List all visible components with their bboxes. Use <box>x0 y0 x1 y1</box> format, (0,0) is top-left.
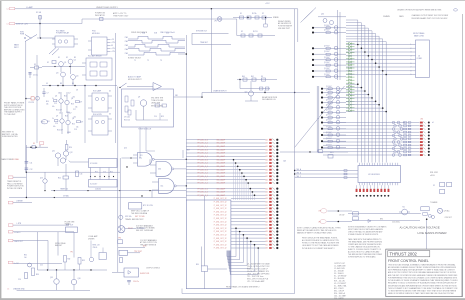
resistor R20 vertical <box>65 145 68 151</box>
svg-text:Q R 4k7: Q R 4k7 <box>324 57 330 59</box>
svg-text:FP_LED_O_1: FP_LED_O_1 <box>198 173 209 175</box>
svg-text:47n: 47n <box>52 106 55 108</box>
svg-text:C11: C11 <box>30 163 33 165</box>
svg-text:LP4: LP4 <box>318 221 321 223</box>
LED row u 153 <box>186 152 265 154</box>
svg-text:TIMER 555: TIMER 555 <box>60 189 68 191</box>
svg-text:DRIVE SEQUENCE: DRIVE SEQUENCE <box>131 32 148 34</box>
bank verticals <box>337 10 339 80</box>
svg-text:R36: R36 <box>36 274 39 276</box>
svg-text:FP_LED_O_1: FP_LED_O_1 <box>198 149 209 151</box>
svg-text:Q R 4k7: Q R 4k7 <box>326 105 332 107</box>
LED row l 202 <box>231 201 266 203</box>
svg-text:FP_LED_O_1: FP_LED_O_1 <box>198 156 209 158</box>
ac source circle <box>438 208 443 213</box>
LED row l 235 <box>231 234 266 236</box>
svg-text:C8: C8 <box>76 90 78 92</box>
LED row l 248 <box>231 247 266 249</box>
upper fan risers to box top <box>233 160 235 200</box>
svg-text:22k: 22k <box>59 113 62 115</box>
svg-text:BT1 3V LITH: BT1 3V LITH <box>143 205 154 207</box>
svg-text:4u7: 4u7 <box>68 93 71 95</box>
connector J3 box <box>416 40 430 78</box>
svg-text:Q4: Q4 <box>76 76 78 78</box>
svg-text:LD1: LD1 <box>265 169 268 171</box>
svg-text:IND_LAMP: IND_LAMP <box>217 182 226 185</box>
svg-text:L.SENSE: L.SENSE <box>16 200 23 202</box>
IC U2 uln2803 <box>358 166 401 183</box>
svg-text:LD1: LD1 <box>265 149 268 151</box>
svg-text:AND THE SET OF NOTATION USED H: AND THE SET OF NOTATION USED HERE AND TH… <box>388 274 458 277</box>
gate IC4a <box>138 153 153 167</box>
right led rows <box>323 122 420 124</box>
svg-text:THE REFLOW AREA: THE REFLOW AREA <box>131 212 148 215</box>
svg-text:R11: R11 <box>47 121 50 123</box>
svg-text:THE LAST VERSION: THE LAST VERSION <box>140 244 157 247</box>
svg-text:C20 2200u: C20 2200u <box>392 221 400 223</box>
svg-text:R24: R24 <box>58 178 61 180</box>
svg-text:LD1: LD1 <box>265 205 268 207</box>
fuse pair right <box>440 183 445 187</box>
svg-text:L.PIEZO: L.PIEZO <box>14 232 21 234</box>
svg-text:THIS POINT ONLY: THIS POINT ONLY <box>113 15 129 17</box>
diag wires to right bank <box>304 8 317 20</box>
svg-text:AND IF NOT IN CONTEXT WITH FOR: AND IF NOT IN CONTEXT WITH FOR ORIGINAL … <box>388 271 457 274</box>
svg-text:P_LED_OUT_12: P_LED_OUT_12 <box>214 241 227 243</box>
lamp LP1 on rail <box>100 17 103 20</box>
ac drop to title area <box>426 219 428 249</box>
svg-text:P_LED_OUT_12: P_LED_OUT_12 <box>214 228 227 230</box>
svg-text:CIRCUIT: CIRCUIT <box>445 217 453 219</box>
svg-text:Q R 4k7: Q R 4k7 <box>326 110 332 112</box>
svg-text:C4: C4 <box>6 9 8 11</box>
svg-text:A) CAUTION HIGH VOLTAGE: A) CAUTION HIGH VOLTAGE <box>400 226 440 230</box>
transistor Q3 <box>61 72 66 77</box>
timing aux wires <box>192 32 229 34</box>
connector stub aux <box>8 239 13 241</box>
crossbar lower rows <box>346 83 358 85</box>
svg-text:LD1: LD1 <box>265 143 268 145</box>
svg-text:R30: R30 <box>196 264 199 266</box>
LED row l 215 <box>231 214 266 216</box>
svg-text:FP_LED_O_1: FP_LED_O_1 <box>198 183 209 185</box>
svg-text:FRONT CONTROL PANEL: FRONT CONTROL PANEL <box>388 259 429 263</box>
speaker SP1 <box>118 226 125 233</box>
svg-text:10k: 10k <box>75 107 78 109</box>
diode box bottom <box>124 268 139 277</box>
gate cluster G1 <box>55 153 60 158</box>
svg-text:FP_LED_O_1: FP_LED_O_1 <box>198 166 209 168</box>
svg-text:LD1: LD1 <box>265 208 268 210</box>
svg-text:P_LED_OUT_12: P_LED_OUT_12 <box>214 244 227 246</box>
svg-text:FP_LED_O_1: FP_LED_O_1 <box>198 159 209 161</box>
net bubble label <box>41 120 48 124</box>
svg-text:FP_LED_O_1: FP_LED_O_1 <box>198 153 209 155</box>
svg-text:P_LED_OUT_12: P_LED_OUT_12 <box>214 238 227 240</box>
svg-text:LD1: LD1 <box>265 231 268 233</box>
rail from matrix <box>178 53 186 55</box>
svg-text:P_LED_OUT_12: P_LED_OUT_12 <box>214 231 227 233</box>
svg-text:Q R 4k7: Q R 4k7 <box>324 25 330 27</box>
svg-text:P_LED_OUT_12: P_LED_OUT_12 <box>214 215 227 217</box>
gate aux parts <box>76 171 79 177</box>
svg-text:RL3 LAMP: RL3 LAMP <box>93 90 102 93</box>
svg-text:LD1: LD1 <box>265 173 268 175</box>
svg-text:CHARGE INPUT: CHARGE INPUT <box>213 89 227 92</box>
svg-text:TO EXIST AFTER NOTATION OVER T: TO EXIST AFTER NOTATION OVER THE EXACT T… <box>388 290 457 293</box>
LED row l 228 <box>231 227 266 229</box>
diode D3 cluster <box>35 66 39 69</box>
svg-text:C25: C25 <box>40 265 43 267</box>
gate IC4b <box>156 162 172 177</box>
svg-text:IND_LAMP: IND_LAMP <box>217 191 226 194</box>
svg-text:IC1 4093: IC1 4093 <box>90 163 97 165</box>
svg-text:U6c: U6c <box>161 186 164 188</box>
svg-text:P_LED_OUT_12: P_LED_OUT_12 <box>214 221 227 223</box>
svg-text:D6: D6 <box>109 114 111 116</box>
LED row l 205 <box>231 204 266 206</box>
svg-text:2k2: 2k2 <box>73 97 76 99</box>
connector J3 rows <box>346 44 416 46</box>
svg-text:Q13: Q13 <box>40 178 43 180</box>
fuse F1 <box>39 15 41 24</box>
bottom rail 270 <box>38 269 108 271</box>
svg-text:D4: D4 <box>39 145 41 147</box>
svg-text:Q7: Q7 <box>56 116 58 118</box>
LED row m 189 <box>186 188 265 190</box>
row 158 wire <box>122 157 138 159</box>
svg-text:BR1: BR1 <box>380 218 383 220</box>
transistor Q1 <box>59 62 64 67</box>
connector stub 5v <box>8 261 13 263</box>
svg-text:TP5: TP5 <box>70 251 73 253</box>
mid vertical rails to bottom <box>117 87 119 273</box>
svg-text:R33: R33 <box>82 260 85 262</box>
LED row u 143 <box>186 142 265 144</box>
svg-text:P_LED_OUT_12: P_LED_OUT_12 <box>214 205 227 207</box>
svg-text:R13: R13 <box>71 104 74 106</box>
svg-text:D7: D7 <box>262 13 264 15</box>
LED row l 218 <box>231 217 266 219</box>
svg-text:C7: C7 <box>47 93 49 95</box>
relay K3 cluster <box>25 98 27 100</box>
svg-text:C18: C18 <box>74 129 77 131</box>
LED row u 166 <box>186 165 265 167</box>
contact crosses under RL1 <box>49 48 56 55</box>
svg-text:DRIVER: DRIVER <box>88 238 95 240</box>
svg-text:D1: D1 <box>58 57 60 59</box>
wire R30 to bundle <box>208 268 227 270</box>
svg-text:R22 1k0: R22 1k0 <box>124 120 130 122</box>
green diode column <box>349 43 352 45</box>
driver rows group A/B <box>312 27 314 29</box>
svg-text:D2: D2 <box>66 57 68 59</box>
svg-text:LD1: LD1 <box>265 215 268 217</box>
relay RL2 box <box>86 58 112 80</box>
svg-text:IND_LAMP: IND_LAMP <box>217 148 226 151</box>
svg-text:R8: R8 <box>60 83 62 85</box>
svg-text:IND_LAMP: IND_LAMP <box>217 194 226 197</box>
LED row u 173 <box>186 172 265 174</box>
svg-text:LD1: LD1 <box>265 146 268 148</box>
oscillator Q7 Q8 <box>60 119 64 123</box>
svg-text:U6a: U6a <box>139 158 142 160</box>
svg-text:D5: D5 <box>109 91 111 93</box>
svg-text:LD1: LD1 <box>265 235 268 237</box>
svg-text:R25: R25 <box>95 172 98 174</box>
svg-text:0V RAIL: 0V RAIL <box>13 158 20 161</box>
svg-text:IND_LAMP: IND_LAMP <box>217 142 226 145</box>
LED row u 176 <box>186 175 265 177</box>
svg-text:IS FIRST APPLIED TO THE BOARD.: IS FIRST APPLIED TO THE BOARD. <box>348 255 376 258</box>
junction row under L1 <box>90 176 91 177</box>
svg-text:S2B: S2B <box>154 33 157 35</box>
svg-text:R23: R23 <box>161 116 164 118</box>
svg-text:Q15: Q15 <box>50 277 53 279</box>
svg-text:47n: 47n <box>53 126 56 128</box>
svg-text:VR1: VR1 <box>175 95 178 97</box>
vertical 201 upper <box>200 247 202 266</box>
svg-text:Q11: Q11 <box>52 151 55 153</box>
svg-text:x8 SIL: x8 SIL <box>430 175 435 177</box>
svg-text:NET: NET <box>42 122 45 124</box>
relay cluster right <box>421 207 429 211</box>
diode pair bottom <box>368 219 371 222</box>
connector stub piezo <box>8 231 13 233</box>
svg-text:C6: C6 <box>7 289 9 291</box>
svg-text:FP_LED_O_1: FP_LED_O_1 <box>198 169 209 171</box>
connector stub K9 <box>8 224 13 227</box>
capacitor C7 <box>43 88 45 92</box>
svg-text:Q R 4k7: Q R 4k7 <box>326 90 332 92</box>
svg-text:CHG_C: CHG_C <box>296 176 302 178</box>
sheet right border <box>462 14 464 297</box>
svg-text:LD1: LD1 <box>265 244 268 246</box>
bottom verticals <box>37 232 39 270</box>
svg-text:R20: R20 <box>69 147 72 149</box>
bottom left caps <box>25 273 28 279</box>
svg-text:R41: R41 <box>251 76 254 78</box>
svg-text:UNSWITCHED SUPPLY: UNSWITCHED SUPPLY <box>96 7 119 9</box>
svg-text:IND_LAMP: IND_LAMP <box>217 152 226 155</box>
svg-text:FOR REFERENCE THIS SECTION C: FOR REFERENCE THIS SECTION CONTAINS LOOK… <box>388 276 458 279</box>
svg-text:T1: T1 <box>134 60 136 62</box>
connector stub K5 <box>39 142 43 145</box>
wire +12V lamp top rail <box>15 8 298 10</box>
svg-text:P_LED_OUT_12: P_LED_OUT_12 <box>214 248 227 250</box>
tone box extra innards <box>155 104 160 107</box>
svg-text:LD1: LD1 <box>265 159 268 161</box>
svg-text:LD1: LD1 <box>265 198 268 200</box>
scan top edge shade <box>0 0 465 1</box>
svg-text:LD1: LD1 <box>265 241 268 243</box>
svg-text:Q20: Q20 <box>321 13 324 15</box>
middle long rail <box>185 35 187 200</box>
svg-text:MAIN CONN: MAIN CONN <box>414 34 424 37</box>
svg-text:LD1: LD1 <box>265 163 268 165</box>
svg-text:Q R 4k7: Q R 4k7 <box>324 68 330 70</box>
LED row u 156 <box>186 155 265 157</box>
svg-text:LD1: LD1 <box>265 211 268 213</box>
svg-text:22k: 22k <box>58 93 61 95</box>
svg-text:IC3: IC3 <box>140 155 143 157</box>
svg-text:CD4060: CD4060 <box>95 189 101 191</box>
svg-text:PH5: PH5 <box>125 53 128 55</box>
svg-text:R3: R3 <box>74 57 76 59</box>
mcu box U5 <box>186 200 231 289</box>
LED row l 212 <box>231 211 266 213</box>
svg-text:LD1: LD1 <box>265 228 268 230</box>
svg-text:SHUNT 0R1: SHUNT 0R1 <box>140 273 149 275</box>
svg-text:IND_LAMP: IND_LAMP <box>217 158 226 161</box>
svg-text:LP2: LP2 <box>214 21 217 23</box>
LED row l 238 <box>231 237 266 239</box>
svg-text:LP3: LP3 <box>319 211 322 213</box>
svg-text:Q3: Q3 <box>56 73 58 75</box>
right rail of psu section <box>84 86 86 144</box>
svg-text:PH2: PH2 <box>125 41 128 43</box>
svg-text:4u7: 4u7 <box>69 113 72 115</box>
amp box B10 <box>66 227 78 232</box>
svg-text:IND_LAMP: IND_LAMP <box>217 178 226 181</box>
svg-text:RLY B: RLY B <box>253 31 257 33</box>
svg-text:LIVE MAINS POWER: LIVE MAINS POWER <box>418 231 448 235</box>
svg-text:K3 12V: K3 12V <box>29 102 35 104</box>
svg-text:DRAWN: DRAWN <box>383 15 390 18</box>
svg-text:R9: R9 <box>72 83 74 85</box>
LED row l 232 <box>231 231 266 233</box>
svg-text:LD1: LD1 <box>265 188 268 190</box>
svg-text:LD1: LD1 <box>265 195 268 197</box>
svg-text:IN THE ON STATE: IN THE ON STATE <box>7 187 23 190</box>
svg-text:0V: 0V <box>46 83 48 85</box>
svg-text:RL2 AUX RELAY: RL2 AUX RELAY <box>88 55 102 58</box>
connector stub K8 <box>8 201 13 204</box>
mute switch <box>120 83 127 88</box>
svg-text:C15: C15 <box>54 103 57 105</box>
svg-text:T3: T3 <box>160 60 162 62</box>
svg-text:PH1: PH1 <box>125 37 128 39</box>
relay RL1 coil box <box>55 36 74 47</box>
svg-text:WITH PERMISSION AND WITH AN A: WITH PERMISSION AND WITH AN ATTEMPT TO K… <box>388 269 456 272</box>
connector stub K7 <box>8 176 13 179</box>
svg-text:22k: 22k <box>46 103 49 105</box>
left vertical rail B <box>36 55 38 143</box>
svg-text:MODULE INPUT: MODULE INPUT <box>128 79 142 81</box>
LED row l 225 <box>231 224 266 226</box>
svg-text:K2: K2 <box>241 31 243 33</box>
tp row <box>118 240 123 244</box>
svg-text:U4: U4 <box>403 122 405 124</box>
svg-text:U2 ULN2803: U2 ULN2803 <box>368 174 380 176</box>
LED row u 163 <box>186 162 265 164</box>
svg-text:R14: R14 <box>65 116 68 118</box>
timing diagram waveforms <box>128 36 185 39</box>
LED row under U2 <box>356 189 358 192</box>
svg-text:THIS DOCUMENT IS NOT GUARANTEE: THIS DOCUMENT IS NOT GUARANTEED TO BE EX… <box>388 287 458 290</box>
svg-text:FP_LED_O_1: FP_LED_O_1 <box>198 143 209 145</box>
driver rows group C <box>321 88 323 90</box>
wire matrix drop <box>210 19 212 93</box>
LED row u 170 <box>186 169 265 171</box>
svg-text:Q R 4k7: Q R 4k7 <box>324 45 330 47</box>
LED row u 140 <box>186 139 265 141</box>
svg-text:U6b: U6b <box>158 169 161 171</box>
psu bottom extra <box>52 61 56 64</box>
svg-text:Q2: Q2 <box>74 60 76 62</box>
svg-text:SOUNDER: SOUNDER <box>137 228 146 230</box>
svg-text:LD1: LD1 <box>265 221 268 223</box>
svg-text:IN THE BUILD DOCUMENT SEE SHE: IN THE BUILD DOCUMENT SEE SHEET 2. <box>302 248 335 250</box>
scan bottom edge shade <box>0 298 465 300</box>
svg-text:Q R 4k7: Q R 4k7 <box>326 115 332 117</box>
svg-text:R35: R35 <box>24 255 27 257</box>
svg-text:LD1: LD1 <box>265 225 268 227</box>
left vertical rail A <box>25 42 27 173</box>
svg-text:INDICATOR: INDICATOR <box>95 14 105 17</box>
svg-text:PWR: PWR <box>20 34 25 36</box>
svg-text:RE-DREW GA AND TEST CLR 12V8 C: RE-DREW GA AND TEST CLR 12V8 CHG 8/02 <box>412 17 448 20</box>
svg-text:Q R 4k7: Q R 4k7 <box>324 30 330 32</box>
wires into U2 <box>295 170 358 172</box>
title header box <box>388 251 430 257</box>
svg-text:Q R 4k7: Q R 4k7 <box>326 100 332 102</box>
svg-text:Q16: Q16 <box>78 278 81 280</box>
svg-text:NOTE: CONNECT CAPACITORS AS N: NOTE: CONNECT CAPACITORS AS NOTED ALL TY… <box>297 226 341 229</box>
scan left edge shade <box>0 0 2 300</box>
svg-text:1k: 1k <box>52 118 54 120</box>
svg-text:LD1: LD1 <box>265 218 268 220</box>
svg-text:THRUST 2002: THRUST 2002 <box>390 252 418 257</box>
svg-text:AS DESIGNED SCANNED IN ELECTRO: AS DESIGNED SCANNED IN ELECTRONIC FORM D… <box>388 266 457 269</box>
wire switched rail <box>15 19 237 24</box>
title block box <box>386 249 462 297</box>
wire switch to relay RL1 <box>41 37 56 39</box>
svg-text:R10: R10 <box>46 101 49 103</box>
svg-text:C5 10u: C5 10u <box>33 75 38 77</box>
svg-text:THIS IS NOT AN ORIGINAL SCHEMA: THIS IS NOT AN ORIGINAL SCHEMATIC I HAVE… <box>388 263 455 266</box>
svg-text:LD1: LD1 <box>265 238 268 240</box>
svg-text:LD1: LD1 <box>265 176 268 178</box>
svg-text:P_LED_OUT_12: P_LED_OUT_12 <box>214 208 227 210</box>
svg-text:STROBE OUT: STROBE OUT <box>196 31 207 33</box>
svg-text:C16: C16 <box>55 123 58 125</box>
cap C11 stack <box>25 145 27 198</box>
svg-text:R26: R26 <box>110 172 113 174</box>
pot VR2 <box>119 215 123 219</box>
svg-text:INPUT: INPUT <box>14 47 19 49</box>
svg-text:C17: C17 <box>73 109 76 111</box>
relay RL3 box <box>92 93 108 112</box>
svg-text:IND_LAMP: IND_LAMP <box>217 187 226 190</box>
svg-text:Q R 4k7: Q R 4k7 <box>324 74 330 76</box>
svg-text:P_LED_OUT_12: P_LED_OUT_12 <box>214 235 227 237</box>
row1 drop part <box>265 18 267 25</box>
driver top cluster <box>318 16 346 18</box>
transistor Q4 <box>71 75 76 80</box>
svg-text:LD1: LD1 <box>265 153 268 155</box>
svg-text:TIMING: TIMING <box>65 224 72 226</box>
long rail 172 <box>26 171 120 173</box>
svg-text:Q22: Q22 <box>245 92 248 94</box>
svg-text:SPARE: SPARE <box>273 16 279 19</box>
svg-text:M1: M1 <box>403 207 405 209</box>
svg-text:PH4: PH4 <box>125 49 128 51</box>
bias resistors <box>64 256 67 263</box>
svg-text:P_LED_OUT_12: P_LED_OUT_12 <box>214 211 227 213</box>
LED row m 195 <box>186 194 265 196</box>
LED row u 146 <box>186 145 265 147</box>
